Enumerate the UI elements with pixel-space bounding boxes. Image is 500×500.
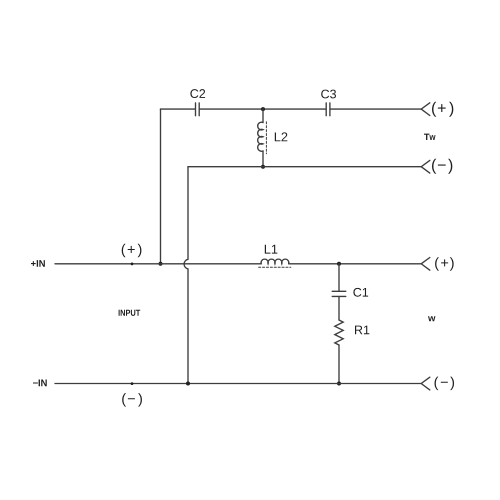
label woofer (-) (435, 377, 455, 391)
wire vertical from second rail down to -IN rail with hop over +IN rail (184, 167, 188, 384)
node junction top of L2 (261, 107, 265, 111)
label input (+) (122, 244, 142, 258)
resistor R1 (335, 320, 343, 345)
wire second rail (188, 166, 421, 168)
capacitor C1 (332, 291, 346, 296)
label R1 (355, 326, 369, 335)
wire R1 to -IN rail (338, 345, 340, 384)
node junction top of C1 (337, 262, 341, 266)
terminal tweeter plus chevron (421, 103, 430, 116)
label w (428, 316, 435, 321)
label L1 (265, 245, 278, 254)
label -IN (33, 380, 47, 387)
label woofer (+) (435, 257, 454, 271)
label L2 (275, 132, 288, 141)
label C3 (321, 90, 336, 99)
wire +IN rail right segment (289, 263, 422, 265)
label +IN (31, 260, 45, 267)
label input (-) (122, 393, 142, 407)
wire C1 top lead (338, 264, 340, 291)
capacitor C3 (326, 103, 330, 116)
wire C1 to R1 lead (338, 297, 340, 320)
wire +IN rail left segment (55, 263, 261, 265)
terminal tweeter minus chevron (421, 160, 430, 173)
node junction bottom of L2 (261, 165, 265, 169)
wire top rail right segment (330, 108, 421, 110)
label C2 (190, 89, 205, 98)
wire top rail middle segment (199, 108, 326, 110)
node marker input plus (131, 263, 134, 266)
inductor L2 (258, 109, 267, 167)
label Tw (424, 134, 436, 140)
capacitor C2 (196, 103, 200, 116)
terminal woofer plus chevron (421, 258, 430, 271)
node junction on +IN rail (159, 262, 163, 266)
label INPUT (119, 310, 141, 316)
label tweeter (-) (432, 159, 452, 174)
label C1 (353, 288, 368, 297)
inductor L1 (259, 259, 291, 267)
wire -IN rail (55, 383, 421, 385)
label tweeter (+) (432, 102, 453, 117)
node junction bottom of C1 R1 branch (337, 382, 341, 386)
node junction -IN rail at vertical wire (186, 382, 190, 386)
node marker input minus (131, 382, 134, 385)
wire top rail left segment (161, 108, 196, 110)
terminal woofer minus chevron (421, 377, 430, 390)
wire vertical from top rail down to +IN rail (160, 109, 162, 264)
